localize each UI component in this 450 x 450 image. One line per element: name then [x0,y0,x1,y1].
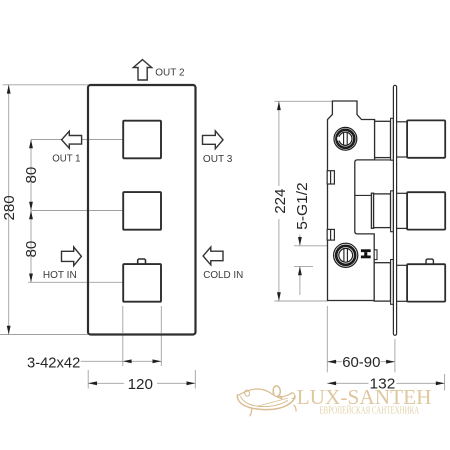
svg-text:120: 120 [128,376,153,393]
svg-text:ЕВРОПЕЙСКАЯ САНТЕХНИКА: ЕВРОПЕЙСКАЯ САНТЕХНИКА [319,404,419,416]
svg-text:OUT 3: OUT 3 [203,154,233,165]
svg-text:OUT 2: OUT 2 [155,68,184,79]
svg-text:132: 132 [370,375,396,392]
svg-text:HOT IN: HOT IN [43,270,77,281]
svg-text:60-90: 60-90 [342,354,380,371]
svg-text:280: 280 [1,195,18,220]
svg-text:224: 224 [272,189,289,214]
svg-text:80: 80 [23,241,40,258]
svg-text:OUT 1: OUT 1 [52,154,81,165]
svg-text:80: 80 [23,167,40,184]
svg-text:3-42x42: 3-42x42 [27,355,80,372]
svg-text:5-G1/2: 5-G1/2 [294,182,311,230]
svg-text:COLD IN: COLD IN [203,270,243,281]
